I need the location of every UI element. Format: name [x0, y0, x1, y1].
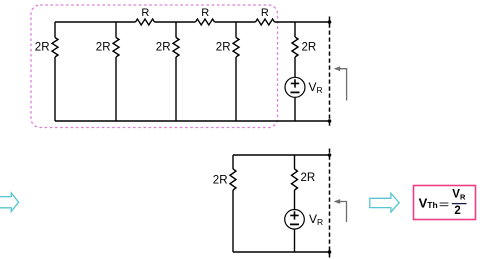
svg-text:2R: 2R — [216, 42, 231, 54]
svg-text:2R: 2R — [213, 175, 228, 187]
resistor 2R (bottom circuit, left) — [230, 169, 236, 190]
wire right branch middle (bottom circuit) — [294, 190, 296, 210]
dashed highlight box (equivalent-network outline) — [31, 5, 278, 128]
resistor 2R (bottom circuit, right) — [292, 169, 298, 190]
wire top rail: R1 to R2 — [155, 21, 196, 23]
source plus sign (bottom) — [290, 211, 298, 219]
terminal pointer bracket (top circuit) — [336, 69, 347, 101]
wire branch 2 upper — [115, 22, 117, 38]
source minus sign (bottom) — [290, 223, 299, 225]
formula fraction bar — [452, 203, 467, 205]
formula result box — [414, 186, 476, 220]
dashed terminal cut line (bottom circuit) — [329, 149, 331, 258]
dashed terminal cut line (top circuit) — [329, 17, 331, 128]
pointer arrowhead (bottom circuit) — [334, 199, 341, 204]
wire branch 3 upper — [175, 22, 177, 38]
wire top rail: R3 to output node — [275, 21, 331, 23]
block arrow left (clipped at edge) — [0, 193, 19, 212]
resistor 2R (shunt branch 3) — [173, 38, 179, 58]
resistor R (third series R) — [256, 19, 275, 25]
junction dot top-right node — [328, 20, 332, 24]
resistor 2R (shunt branch 1) — [52, 38, 58, 58]
resistor R (first series R) — [136, 19, 155, 25]
terminal pointer bracket (bottom circuit) — [336, 202, 347, 223]
wire branch 4 lower — [235, 57, 237, 121]
resistor 2R (shunt branch 4) — [233, 38, 239, 58]
wire left branch lower (bottom circuit) — [232, 190, 234, 252]
svg-text:2R: 2R — [156, 42, 171, 54]
svg-text:2R: 2R — [302, 42, 317, 54]
block arrow right (implies) — [370, 193, 399, 212]
wire bottom rail (bottom circuit) — [233, 251, 331, 253]
junction dot top node (bottom circuit) — [328, 153, 332, 157]
wire branch 3 lower — [175, 57, 177, 121]
pointer arrowhead (top circuit) — [334, 66, 341, 71]
wire top rail (bottom circuit) — [233, 154, 331, 156]
wire right branch upper (bottom circuit) — [294, 155, 296, 169]
svg-text:R: R — [201, 7, 209, 19]
svg-text:R: R — [261, 7, 269, 19]
svg-text:2: 2 — [454, 205, 460, 217]
svg-text:2R: 2R — [96, 42, 111, 54]
source minus sign — [291, 91, 300, 93]
voltage source VR (bottom circuit) — [285, 210, 305, 230]
wire branch 4 upper — [235, 22, 237, 38]
source plus sign — [291, 79, 299, 87]
wire top rail: R2 to R3 — [215, 21, 256, 23]
junction dot bottom-right node — [328, 119, 332, 123]
svg-text:R: R — [141, 7, 149, 19]
formula equals sign — [440, 203, 449, 206]
wire right branch lower (bottom circuit) — [294, 229, 296, 252]
svg-text:VR: VR — [309, 80, 323, 95]
wire top rail: node A to R1 — [55, 21, 136, 23]
wire bottom rail (top circuit) — [55, 120, 331, 122]
wire branch 5 lower — [294, 97, 296, 121]
svg-text:2R: 2R — [35, 42, 50, 54]
resistor 2R (shunt branch 2) — [113, 38, 119, 58]
wire left branch upper (bottom circuit) — [232, 155, 234, 169]
resistor R (second series R) — [196, 19, 215, 25]
wire branch 5 middle — [294, 57, 296, 77]
resistor 2R (branch 5, in series with source) — [292, 37, 298, 57]
wire branch 5 upper — [294, 22, 296, 37]
wire branch 2 lower — [115, 57, 117, 121]
junction dot bottom node (bottom circuit) — [328, 250, 332, 254]
wire branch 1 lower — [54, 57, 56, 121]
svg-text:VR: VR — [309, 212, 323, 227]
svg-text:2R: 2R — [301, 172, 316, 184]
wire branch 1 upper — [54, 22, 56, 38]
voltage source VR (top circuit) — [285, 77, 305, 97]
